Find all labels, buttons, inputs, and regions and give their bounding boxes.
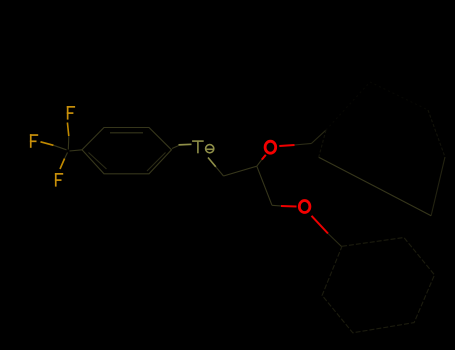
bond CF3-ring xyxy=(70,150,83,151)
ring double bond inner left-bottom xyxy=(89,153,107,170)
bond C(F3)-F2 dim half xyxy=(54,145,67,150)
bond C1-C2 xyxy=(224,166,257,176)
bond Te-C1 bright half xyxy=(208,158,216,167)
bond O2-CH2b red half xyxy=(312,216,329,234)
edge right-lower xyxy=(431,157,445,216)
edge top xyxy=(370,82,428,110)
atom F1 (top fluorine label) xyxy=(67,106,75,120)
atom F2 (left fluorine label) xyxy=(30,134,38,148)
bond O2-CH2b dim half xyxy=(328,234,342,248)
bond ring-Te bright half (dash) xyxy=(179,143,192,146)
bond C3-O2 dim half xyxy=(272,204,282,207)
bond C(F3)-F2 bright half xyxy=(41,142,54,146)
bond O1-CH2a red half xyxy=(279,145,294,146)
atom O1 label (ether oxygen top) xyxy=(265,141,276,153)
bond O1-CH2a dim half xyxy=(295,143,312,145)
atom F3 (bottom fluorine label) xyxy=(55,173,63,187)
atom Te label xyxy=(192,141,214,153)
edge ipso-up xyxy=(326,82,370,130)
bond CH2a-phenyl ipso xyxy=(312,130,327,143)
bond C(F3)-F3 dim half xyxy=(65,153,68,159)
lower-right phenyl ring (dim) xyxy=(322,238,434,333)
bond C(F3)-F1 dim half xyxy=(67,136,70,150)
ring double bond inner right-bottom xyxy=(147,153,166,172)
bond C2-O1 dim half xyxy=(257,160,262,167)
bond Te-C1 dim half xyxy=(216,167,224,176)
ring double bond inner top xyxy=(110,132,143,134)
bond C(F3)-F3 bright half xyxy=(60,159,65,170)
edge long diagonal xyxy=(319,157,431,216)
edge closing to ipso xyxy=(319,130,326,157)
bond C2-C3 xyxy=(257,166,272,205)
edge right-upper xyxy=(428,110,445,157)
bond C2-O1 red half xyxy=(262,155,266,160)
atom O2 label (ether oxygen bottom) xyxy=(299,201,310,213)
bond C3-O2 red half xyxy=(281,205,297,208)
benzene ring left (dim) xyxy=(82,128,172,174)
bond ring-Te dim half xyxy=(172,146,179,149)
bond C(F3)-F1 bright half xyxy=(67,123,68,137)
